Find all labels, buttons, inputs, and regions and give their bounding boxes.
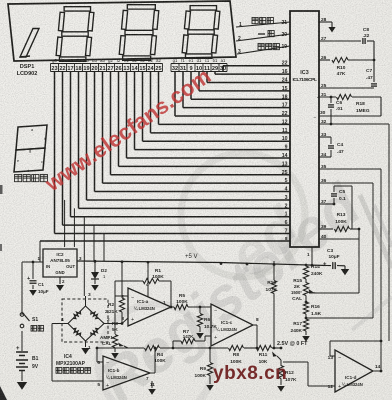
gray watermark ring [181, 153, 305, 277]
wire IC1-d +in [283, 361, 308, 363]
ground arrow C3 [344, 266, 346, 269]
wire R15 junction to pin39 drop [305, 301, 307, 302]
op-amp IC1-d [335, 350, 373, 392]
capacitor C4 [319, 136, 331, 138]
bus drop wires to analog section [64, 200, 66, 247]
bridge pin4 wire left [52, 323, 68, 325]
wire pin32 [319, 123, 389, 125]
wire R16/R17 junction to pin36 drop [306, 317, 373, 319]
op-amp IC1-b [103, 356, 150, 390]
wire IC1-d feedback [373, 370, 381, 372]
resistor R12 107K [278, 366, 283, 379]
bridge diamond [68, 306, 104, 341]
wires LCD right pin group to IC3 (nested) [174, 72, 176, 117]
wire IC2 GND + ground [59, 277, 61, 284]
LCD digit 4 ("8") [190, 6, 216, 10]
IC2 AN78L05 regulator [43, 249, 77, 277]
wire IC1-a +in [122, 318, 128, 324]
wire IC1-a V+ [147, 261, 149, 297]
LCD digit 3 ("8") [127, 5, 155, 9]
wire 2 minus sign to pin 20 [236, 34, 290, 41]
bridge pin1 ground [85, 341, 87, 347]
resistor R8 100K [229, 345, 244, 350]
resistor R4 100K [145, 345, 160, 350]
resistor R7 147K [172, 341, 174, 348]
left edge scan marks [0, 185, 3, 194]
capacitor C5 [319, 203, 334, 205]
battery B1 9V [21, 331, 23, 351]
wire pin34 [319, 156, 331, 158]
capacitor C8 [319, 40, 361, 42]
resistor R14 240K [305, 265, 307, 266]
wire IC1-b +in [52, 380, 103, 382]
diode D2 [94, 261, 96, 272]
wire 1 backplane to pin 21 [236, 22, 290, 27]
scan speckle noise [0, 0, 1, 1]
resistor R10 47K [319, 59, 330, 61]
resistor R19 107K [273, 261, 275, 280]
wire pin8 long bottom [40, 240, 290, 242]
wire 3 all-digits to pin 19 [237, 46, 290, 54]
resistor R2 2.21K [121, 261, 123, 298]
LCD display DSP1 outline [8, 1, 236, 61]
wire pin28 [319, 21, 332, 23]
LCD digit 2 ("8") [64, 7, 90, 11]
wire pin40 [319, 238, 359, 240]
segment indicator symbol [16, 125, 47, 150]
wire pin25 [319, 87, 374, 89]
resistor R5 100K [171, 306, 174, 308]
trimmer R15 2K CAL [303, 283, 308, 296]
wire bus into 2.5V node [272, 347, 281, 349]
switch S1 [21, 262, 23, 315]
resistor R1 100K feedback [115, 295, 128, 297]
wire IC1-c out [253, 324, 257, 326]
LCD pin row boxes [51, 63, 163, 65]
capacitor C1 10uF [32, 261, 35, 264]
resistor R6 [199, 307, 201, 313]
op-amp IC1-a [128, 288, 171, 326]
ground arrow pin28 [331, 22, 333, 27]
sensor dashed box [62, 299, 108, 342]
wires LCD left pin group to IC3 (nested) [54, 72, 56, 234]
bridge pin2 wire right [104, 323, 122, 325]
wire signal bus [97, 347, 144, 349]
resistor R17 240K [303, 319, 308, 331]
gray watermark strokes right edge [360, 195, 392, 268]
arrow onto 2.5V bus [302, 336, 310, 342]
resistor R18 1MEG [319, 96, 336, 98]
trimmer R3 AMP1 CAL [114, 296, 116, 334]
wire IC1-b out [150, 372, 155, 374]
capacitor C6 .01 [319, 115, 381, 117]
wire IC1-b -in [97, 361, 103, 363]
LCD digit 1 (leading "1") [20, 29, 39, 58]
op-amp IC1-c [211, 304, 253, 346]
wire +5V rail [77, 261, 326, 266]
wire pin36 [319, 182, 373, 184]
trimmer R11 10K [257, 345, 272, 350]
wire pin35 [319, 168, 381, 170]
resistor R13 100K [319, 228, 333, 230]
resistor R9 100K [209, 348, 211, 362]
wire IC2 IN [22, 261, 43, 263]
op IC3 ICL7106CPL body [290, 11, 319, 247]
ground battery [21, 371, 23, 382]
label segment indicator [15, 175, 22, 182]
resistor R16 1.5K [303, 302, 308, 314]
capacitor C7 [373, 60, 375, 82]
bridge pin3 wire up [85, 296, 87, 306]
wire IC3 pin1 to rail [311, 247, 313, 265]
